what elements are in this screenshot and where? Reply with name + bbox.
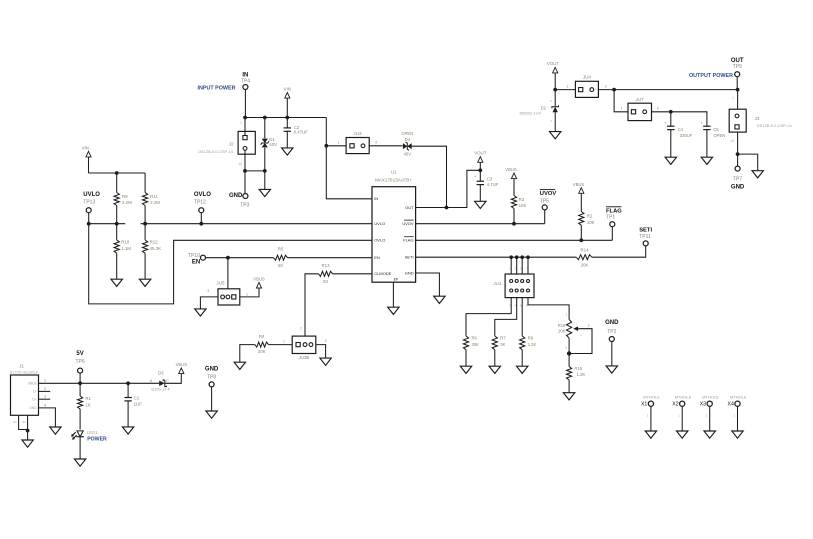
svg-text:TP10: TP10	[188, 253, 200, 259]
test point TP13 UVLO	[83, 192, 100, 224]
svg-text:3: 3	[44, 395, 46, 399]
svg-text:1.2K: 1.2K	[577, 372, 586, 377]
resistor R7 3K	[492, 336, 506, 367]
svg-text:D-: D-	[33, 390, 37, 394]
svg-text:10K: 10K	[519, 203, 527, 208]
junction OUT at D4 branch	[445, 206, 449, 210]
wire CLMODE line	[305, 274, 372, 336]
wire C4 to C5	[671, 112, 707, 126]
ground below C3	[475, 201, 486, 208]
svg-text:B560Q-13-F: B560Q-13-F	[519, 111, 542, 116]
wire UVOV line	[416, 223, 545, 225]
power flag VBUS at D3	[176, 362, 188, 373]
svg-text:2: 2	[605, 84, 607, 88]
svg-text:OUTPUT POWER: OUTPUT POWER	[689, 73, 733, 79]
svg-text:VIN: VIN	[284, 87, 291, 92]
jumper JU2B	[269, 327, 327, 360]
svg-text:61729-0011BLF: 61729-0011BLF	[10, 369, 39, 374]
connector J1 61729-0011BLF	[10, 363, 55, 440]
test point TP7 GND	[731, 166, 745, 190]
svg-text:1: 1	[44, 379, 46, 383]
svg-text:R8: R8	[528, 336, 534, 341]
wire IC EP to ground	[392, 282, 394, 307]
ground below R15	[563, 393, 574, 400]
svg-text:330UF: 330UF	[680, 133, 693, 138]
op-amp U1 MAX17613AATB+ (IC)	[372, 170, 416, 283]
svg-text:C4: C4	[678, 127, 684, 132]
svg-text:3: 3	[207, 289, 209, 293]
wire J2 to D1 gnd link	[245, 170, 265, 172]
svg-text:TP2: TP2	[607, 329, 616, 335]
ground below LED1	[74, 459, 85, 466]
svg-text:2: 2	[657, 107, 659, 111]
resistor R9 2.2M	[114, 193, 132, 224]
junction OUT rail at TP9	[736, 88, 740, 92]
resistor R14 20K	[576, 247, 592, 267]
ground at IC EP	[388, 307, 399, 314]
jumper JU1	[493, 257, 534, 307]
svg-text:GND: GND	[731, 184, 745, 190]
svg-text:1: 1	[283, 339, 285, 343]
svg-text:R5: R5	[278, 247, 284, 252]
wire 5V rail	[39, 382, 160, 384]
svg-text:D4: D4	[405, 137, 411, 142]
svg-text:D2: D2	[541, 105, 547, 110]
connector J3	[729, 90, 792, 167]
resistor R10 1.1M	[114, 224, 131, 280]
svg-text:VBUS: VBUS	[28, 382, 38, 386]
power flag VOUT at C3	[474, 151, 487, 171]
svg-text:TP8: TP8	[207, 375, 216, 381]
svg-text:50: 50	[278, 263, 283, 268]
svg-text:45.3K: 45.3K	[150, 246, 162, 251]
wire OVLO line to IC UVLO pin	[141, 223, 372, 225]
svg-text:OUT: OUT	[731, 58, 744, 64]
svg-text:30K: 30K	[472, 342, 480, 347]
svg-text:GND: GND	[229, 193, 243, 199]
svg-text:X2: X2	[672, 402, 678, 408]
svg-text:1: 1	[240, 121, 242, 125]
junction OVLO at TP12	[199, 222, 203, 226]
capacitor C3 4.7uF	[474, 170, 499, 201]
svg-text:R3: R3	[519, 197, 525, 202]
svg-text:20K: 20K	[581, 262, 589, 267]
svg-text:VBUS: VBUS	[505, 167, 517, 172]
svg-text:EN: EN	[374, 255, 380, 260]
svg-text:U1: U1	[391, 170, 397, 175]
resistor R1 1K	[78, 383, 92, 429]
mounting hole X2 MTHOLE	[672, 394, 691, 438]
svg-text:TP7: TP7	[733, 176, 742, 182]
junction SETI at JU1 pins	[509, 255, 529, 259]
svg-text:R6: R6	[472, 336, 478, 341]
svg-text:40V: 40V	[404, 152, 412, 157]
schottky diode D2 B560Q-13-F	[519, 99, 558, 132]
resistor R4 20K	[240, 334, 269, 362]
svg-text:UVLO: UVLO	[374, 221, 385, 226]
wire IC OUT	[416, 170, 481, 207]
svg-text:JU5: JU5	[216, 281, 225, 286]
svg-text:TP3: TP3	[240, 202, 249, 208]
power flag VBUS at R3	[505, 167, 517, 195]
ground below C4	[665, 157, 676, 164]
svg-text:VOUT: VOUT	[547, 61, 560, 66]
test point TP9 OUT	[731, 58, 744, 90]
junction at C4	[669, 110, 673, 114]
test point TP11 SETI	[639, 227, 652, 246]
junction J3 gnd	[736, 152, 740, 156]
svg-text:1UF: 1UF	[134, 401, 143, 406]
test point TP12 OVLO	[194, 192, 211, 224]
svg-text:FLAG: FLAG	[403, 238, 413, 243]
jumper JU3	[326, 131, 402, 154]
ground below TP8	[206, 411, 217, 418]
mounting hole X1 MTHOLE	[641, 394, 660, 438]
svg-text:2: 2	[228, 279, 230, 283]
svg-text:TP1: TP1	[606, 215, 615, 221]
svg-text:B160-13-F: B160-13-F	[151, 387, 170, 392]
wire JU1 pin4 to R7	[495, 298, 517, 336]
svg-text:3K: 3K	[500, 342, 505, 347]
svg-text:TP4: TP4	[241, 79, 250, 85]
resistor R6 30K	[463, 336, 479, 367]
test point TP1 FLAG	[606, 207, 622, 241]
svg-text:1: 1	[732, 96, 734, 100]
svg-text:C1: C1	[134, 396, 140, 401]
resistor R3 10K	[511, 196, 526, 224]
svg-text:20K: 20K	[258, 349, 266, 354]
test point TP6 5V	[76, 351, 85, 384]
ground below R10	[111, 279, 122, 286]
ground below R8	[517, 366, 528, 373]
svg-text:1.2K: 1.2K	[528, 342, 537, 347]
wire JU1 pin8 to R16	[528, 298, 569, 320]
svg-text:2: 2	[300, 327, 302, 331]
svg-text:MTHOLE: MTHOLE	[730, 394, 747, 399]
svg-text:14: 14	[730, 139, 734, 143]
junction OUT rail at JU4	[612, 88, 616, 92]
svg-text:1K: 1K	[85, 403, 90, 408]
junction R16 wiper to R15	[567, 351, 571, 355]
wire VIN to divider tops	[89, 173, 146, 193]
svg-text:X1: X1	[641, 402, 647, 408]
ground below R12	[139, 279, 150, 286]
svg-text:JU1: JU1	[493, 281, 502, 286]
svg-text:X4: X4	[728, 402, 734, 408]
svg-text:5V: 5V	[76, 351, 83, 357]
svg-text:SETI: SETI	[405, 255, 414, 260]
svg-text:VBUS: VBUS	[573, 182, 585, 187]
svg-text:MTHOLE: MTHOLE	[675, 394, 692, 399]
svg-text:0.47UF: 0.47UF	[294, 130, 309, 135]
ground below TP2	[606, 366, 617, 373]
ground at JU5 pin3	[195, 309, 206, 316]
svg-text:LED1: LED1	[87, 430, 99, 435]
svg-text:10K: 10K	[587, 220, 595, 225]
svg-text:VIN: VIN	[82, 145, 89, 150]
junction OVLO at R11/R12	[143, 222, 147, 226]
junction divider rail	[115, 171, 119, 175]
svg-text:R12: R12	[150, 240, 159, 245]
svg-text:R4: R4	[259, 334, 265, 339]
svg-text:TP5: TP5	[540, 198, 549, 204]
svg-text:DS12B-5.0-CSP-14: DS12B-5.0-CSP-14	[757, 123, 793, 128]
svg-text:2: 2	[375, 141, 377, 145]
svg-text:J2: J2	[229, 142, 234, 147]
svg-text:R2: R2	[587, 213, 593, 218]
svg-text:R14: R14	[580, 247, 589, 252]
svg-text:2.2M: 2.2M	[122, 200, 132, 205]
wire SETI line	[416, 246, 646, 257]
svg-text:+: +	[701, 120, 704, 125]
svg-text:+: +	[474, 174, 477, 179]
svg-text:X3: X3	[700, 402, 706, 408]
svg-text:A: A	[550, 119, 552, 123]
ground at JU2B pin3	[320, 358, 331, 365]
svg-text:D3: D3	[158, 371, 164, 376]
svg-text:VOUT: VOUT	[474, 151, 487, 156]
wire UVLO node	[89, 223, 126, 225]
junction IN rail at TP4	[243, 116, 247, 120]
test point TP10 EN	[188, 253, 205, 265]
svg-text:R16: R16	[558, 323, 566, 328]
svg-text:UVLO: UVLO	[83, 192, 100, 198]
svg-text:VBUS: VBUS	[253, 277, 265, 282]
svg-text:+: +	[664, 120, 667, 125]
svg-text:1: 1	[621, 107, 623, 111]
wire FLAG line	[416, 239, 613, 241]
TVS diode D4 OPEN 40V	[401, 131, 446, 208]
ground at IC GND pin	[434, 296, 445, 303]
svg-text:2: 2	[44, 387, 46, 391]
svg-text:MTHOLE: MTHOLE	[702, 394, 719, 399]
wire OUT rail	[614, 89, 738, 91]
wire IN rail	[245, 117, 326, 119]
svg-text:INPUT POWER: INPUT POWER	[197, 85, 235, 91]
svg-text:1.1M: 1.1M	[121, 246, 131, 251]
svg-text:GND: GND	[29, 406, 37, 410]
svg-text:2.2M: 2.2M	[150, 200, 160, 205]
svg-text:C: C	[166, 378, 169, 383]
resistor R8 1.2K	[520, 336, 537, 367]
test point TP4 IN	[241, 73, 250, 118]
junction UVOV at R3	[512, 222, 516, 226]
svg-text:1: 1	[566, 84, 568, 88]
svg-text:3: 3	[325, 339, 327, 343]
power flag VOUT at JU4	[547, 61, 560, 107]
junction FLAG at R2	[579, 238, 583, 242]
LED LED1 POWER	[71, 430, 107, 459]
test point TP8 GND	[205, 367, 219, 412]
ground below D2	[550, 132, 561, 139]
svg-text:R15: R15	[574, 366, 582, 371]
svg-text:OUT: OUT	[405, 205, 414, 210]
wire JU1 pin2 to R6	[466, 298, 511, 336]
wire EN line	[206, 257, 373, 259]
svg-text:GND: GND	[405, 270, 414, 275]
svg-text:S1: S1	[13, 420, 17, 424]
ground below C2	[282, 148, 293, 155]
svg-text:10K: 10K	[558, 328, 566, 333]
junction 5V at C1	[126, 381, 130, 385]
test point TP2 GND	[605, 320, 619, 366]
capacitor C5 OPEN	[701, 120, 726, 157]
svg-text:JU7: JU7	[635, 97, 644, 102]
svg-text:MAX17613AATB+: MAX17613AATB+	[375, 177, 412, 182]
potentiometer R16 10K	[558, 312, 592, 366]
svg-text:SETI: SETI	[639, 227, 652, 233]
svg-text:JU2B: JU2B	[299, 355, 310, 360]
svg-text:J1: J1	[19, 363, 24, 368]
capacitor C4 330uF	[664, 112, 692, 157]
svg-text:TP9: TP9	[733, 64, 742, 70]
ground at R4	[234, 362, 245, 369]
svg-text:R10: R10	[121, 240, 130, 245]
svg-text:OPEN: OPEN	[713, 133, 725, 138]
capacitor C1 1uF	[124, 383, 142, 427]
mounting hole X3 MTHOLE	[700, 394, 719, 438]
label INPUT POWER	[197, 85, 235, 91]
junction at JU3 pin1	[324, 144, 328, 148]
svg-text:C3: C3	[487, 176, 493, 181]
svg-text:14: 14	[238, 162, 242, 166]
ground below C1	[122, 427, 133, 434]
svg-text:D+: D+	[32, 397, 36, 401]
svg-text:OPEN: OPEN	[401, 131, 413, 136]
connector J2	[198, 118, 255, 194]
wire J3 gnd branch	[738, 154, 758, 171]
svg-text:1: 1	[246, 292, 248, 296]
svg-text:VBUS: VBUS	[176, 362, 188, 367]
svg-text:EP: EP	[394, 278, 399, 282]
junction IN rail at VIN flag	[285, 116, 289, 120]
jumper JU5	[200, 258, 259, 309]
wire JU1 pin6 to R8	[521, 298, 523, 336]
junction VOUT at JU4	[553, 88, 557, 92]
svg-text:S2: S2	[22, 420, 26, 424]
svg-text:R9: R9	[122, 194, 128, 199]
power flag VBUS at R2	[573, 182, 585, 212]
svg-text:OVLO: OVLO	[374, 238, 385, 243]
svg-text:MTHOLE: MTHOLE	[643, 394, 660, 399]
junction J1 shield	[26, 429, 30, 433]
resistor R12 45.3K	[143, 224, 162, 280]
capacitor C2 0.47uF	[284, 118, 309, 148]
svg-text:UVOV: UVOV	[402, 221, 414, 226]
junction UVLO at TP13	[87, 222, 91, 226]
svg-text:IN: IN	[374, 196, 378, 201]
svg-text:TP12: TP12	[194, 199, 206, 205]
svg-text:A: A	[150, 378, 153, 383]
svg-text:EN: EN	[192, 260, 200, 266]
svg-text:4.7UF: 4.7UF	[487, 182, 499, 187]
ground below D1	[259, 189, 270, 196]
resistor R11 2.2M	[143, 193, 161, 224]
junction IN rail at D1	[263, 116, 267, 120]
power flag VIN (input)	[284, 87, 291, 118]
svg-text:R13: R13	[321, 263, 330, 268]
wire IC GND pin to ground	[416, 273, 440, 296]
svg-text:4: 4	[44, 403, 46, 407]
test point TP3 GND	[229, 193, 250, 209]
svg-text:2: 2	[588, 324, 590, 328]
wire UVLO routed loop to IC OVLO pin	[89, 224, 372, 304]
mounting hole X4 MTHOLE	[728, 394, 747, 438]
ground below C5	[701, 157, 712, 164]
ground below R7	[489, 366, 500, 373]
svg-text:JU4: JU4	[583, 75, 592, 80]
junction UVLO at R9/R10	[115, 222, 119, 226]
resistor R5 50	[274, 247, 288, 268]
svg-text:GND: GND	[205, 367, 219, 373]
svg-text:R7: R7	[500, 336, 506, 341]
svg-text:1: 1	[566, 312, 568, 316]
svg-text:OVLO: OVLO	[194, 192, 211, 198]
ground at J1 pin4	[50, 427, 61, 434]
ground below R6	[460, 366, 471, 373]
resistor R2 10K	[579, 212, 595, 241]
resistor R15 1.2K	[567, 366, 586, 393]
wire IN rail corner down to IC IN	[326, 118, 372, 199]
TVS diode D1 40V	[261, 118, 277, 190]
resistor R13 50	[318, 263, 332, 284]
svg-text:J3: J3	[755, 116, 760, 121]
svg-text:R11: R11	[150, 194, 158, 199]
svg-text:TP11: TP11	[639, 234, 651, 240]
junction EN at JU5	[226, 256, 230, 260]
svg-text:R1: R1	[85, 396, 91, 401]
power flag VIN (dividers)	[82, 145, 91, 173]
svg-text:GND: GND	[605, 320, 619, 326]
jumper JU7	[614, 90, 671, 121]
svg-text:UVOV: UVOV	[540, 191, 557, 197]
svg-text:JU3: JU3	[353, 131, 362, 136]
ground below J1 shield	[22, 440, 33, 447]
label OUTPUT POWER	[689, 73, 733, 79]
svg-text:TP6: TP6	[76, 359, 85, 365]
junction 5V at R1	[78, 381, 82, 385]
svg-text:C5: C5	[713, 127, 719, 132]
test point TP5 UVOV	[540, 190, 557, 224]
schottky diode D3 B160-13-F	[150, 371, 182, 392]
junction at J2 bottom	[243, 169, 247, 173]
junction VOUT at C3	[478, 168, 482, 172]
svg-text:FLAG: FLAG	[606, 208, 622, 214]
junction at D1 bottom	[263, 169, 267, 173]
svg-text:DS12B-5.0-CSP-14: DS12B-5.0-CSP-14	[198, 149, 234, 154]
svg-text:CLMODE: CLMODE	[374, 271, 391, 276]
jumper JU4	[555, 75, 614, 98]
svg-text:3: 3	[565, 346, 567, 350]
svg-text:1: 1	[338, 141, 340, 145]
svg-text:40V: 40V	[269, 142, 277, 147]
ground at J3	[752, 171, 763, 178]
svg-text:50: 50	[323, 279, 328, 284]
svg-text:TP13: TP13	[83, 199, 95, 205]
svg-text:POWER: POWER	[87, 436, 107, 442]
power flag VBUS at JU5	[253, 277, 265, 288]
